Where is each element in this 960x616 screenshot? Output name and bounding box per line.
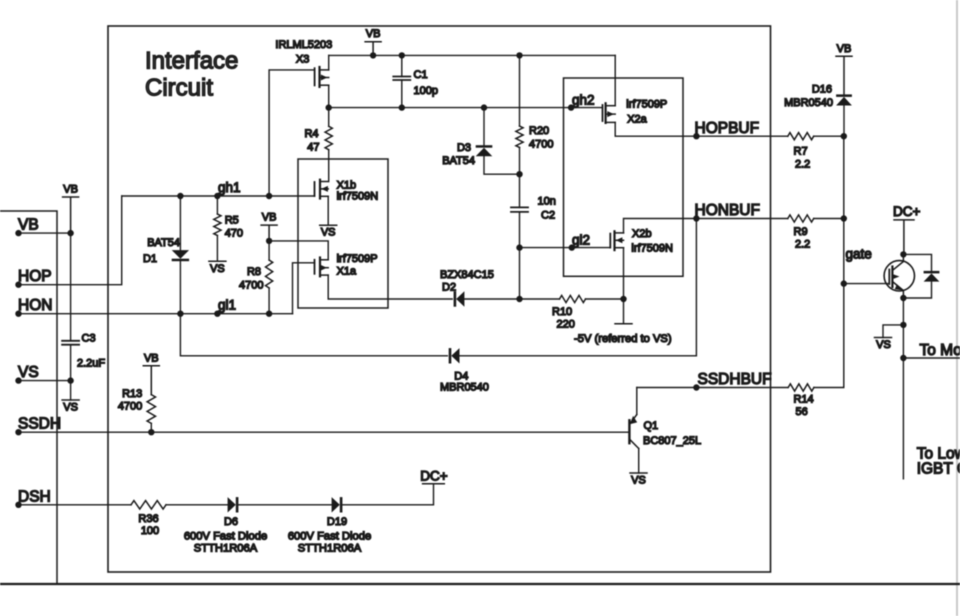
svg-text:600V Fast Diode: 600V Fast Diode — [184, 530, 267, 542]
svg-text:DC+: DC+ — [420, 468, 447, 483]
svg-text:DSH: DSH — [18, 488, 51, 505]
resistor R8 — [268, 241, 270, 260]
svg-text:irf7509N: irf7509N — [631, 243, 673, 255]
wire X2a source to VB rail — [614, 55, 616, 105]
resistor R20 — [516, 52, 522, 58]
svg-text:D1: D1 — [143, 253, 157, 265]
resistor R4 — [328, 108, 330, 127]
svg-text:Q1: Q1 — [644, 420, 659, 432]
svg-text:100p: 100p — [414, 85, 438, 97]
wire gl2 — [520, 247, 611, 249]
svg-text:X2b: X2b — [632, 228, 652, 240]
wire X3 drain up to VB rail — [328, 55, 330, 70]
transistor IGBT — [884, 261, 914, 291]
wire gl1 up to X1a gate — [293, 263, 315, 314]
wire X1a drain out — [328, 275, 452, 299]
svg-text:4700: 4700 — [239, 279, 263, 291]
freewheel diode — [903, 254, 931, 271]
svg-text:VB: VB — [18, 217, 39, 234]
svg-text:R13: R13 — [122, 388, 142, 400]
wire VB down to C3 — [70, 233, 72, 341]
wire HOP to gh1 — [19, 196, 122, 285]
resistor R7 — [788, 133, 814, 140]
wire X2b drain to HONBUF — [624, 219, 788, 233]
svg-text:R10: R10 — [552, 306, 572, 318]
svg-text:R36: R36 — [138, 513, 158, 525]
transistor X1b irf7509N — [314, 182, 316, 196]
power VB (left) — [63, 197, 79, 233]
svg-text:X2a: X2a — [627, 114, 647, 126]
svg-text:C2: C2 — [541, 210, 555, 222]
power VB (top rail) — [365, 42, 381, 56]
transistor Q1 BC807_25L — [636, 388, 638, 415]
ground VS (Q1) — [630, 472, 647, 474]
diode D6 STTH1R06A — [228, 497, 236, 512]
svg-text:Circuit: Circuit — [145, 75, 213, 102]
rail2 (gh2 net) — [329, 107, 603, 109]
wire HON / gl1 rail — [19, 313, 293, 315]
svg-text:D2: D2 — [442, 282, 456, 294]
wire C3 to VS wire — [70, 345, 72, 400]
power VB (R13) — [143, 366, 159, 395]
capacitor C2 — [519, 174, 521, 207]
svg-text:X1a: X1a — [337, 266, 357, 278]
svg-text:VS: VS — [876, 339, 891, 351]
resistor R5 — [216, 196, 218, 214]
svg-text:D3: D3 — [457, 142, 471, 154]
transistor X2b irf7509N — [609, 234, 611, 248]
svg-text:STTH1R06A: STTH1R06A — [298, 543, 362, 555]
svg-text:irf7509P: irf7509P — [626, 99, 667, 111]
capacitor C3 — [62, 341, 79, 345]
wire X1b source to VS — [327, 196, 329, 225]
diode D3 BAT54 — [481, 104, 487, 110]
diode D4 MBR0540 — [180, 314, 447, 356]
svg-text:VS: VS — [210, 263, 225, 275]
wire emitter down — [902, 298, 904, 479]
svg-text:VS: VS — [631, 475, 646, 487]
svg-text:VB: VB — [63, 184, 78, 196]
svg-text:MBR0540: MBR0540 — [784, 97, 833, 109]
svg-text:56: 56 — [796, 406, 808, 418]
svg-text:R4: R4 — [304, 128, 318, 140]
wire To Motor — [900, 355, 906, 361]
transistor X1a irf7509P — [314, 260, 316, 274]
svg-text:R7: R7 — [794, 146, 808, 158]
ground VS (under C3) — [62, 399, 79, 401]
wire X2a drain to HOPBUF — [615, 122, 788, 136]
svg-text:HOPBUF: HOPBUF — [695, 120, 760, 137]
bottom page border — [0, 583, 960, 585]
svg-text:D16: D16 — [812, 84, 832, 96]
svg-text:VB: VB — [366, 28, 381, 40]
wire gate rail — [843, 136, 845, 387]
svg-text:470: 470 — [225, 228, 243, 240]
svg-text:IGBT G: IGBT G — [917, 461, 960, 478]
wire X3 source down to rail2 — [328, 85, 330, 107]
svg-text:47: 47 — [307, 142, 319, 154]
wire SSDHBUF — [637, 387, 788, 389]
ground -5V — [623, 299, 625, 324]
svg-text:C1: C1 — [414, 69, 428, 81]
wire X3 gate from gh1 — [269, 70, 315, 196]
svg-text:R20: R20 — [529, 125, 549, 137]
svg-text:gl2: gl2 — [572, 232, 590, 247]
svg-text:220: 220 — [557, 319, 575, 331]
svg-text:VS: VS — [63, 402, 78, 414]
svg-text:D6: D6 — [224, 516, 238, 528]
svg-text:gate: gate — [846, 247, 872, 262]
power VB (D16) — [836, 56, 852, 94]
wire down to D2/R10 node — [519, 248, 521, 299]
svg-text:BC807_25L: BC807_25L — [643, 435, 701, 447]
svg-text:BZX84C15: BZX84C15 — [440, 269, 494, 281]
svg-text:gh2: gh2 — [572, 93, 595, 108]
svg-text:600V Fast Diode: 600V Fast Diode — [288, 530, 371, 542]
ground VS (emitter) — [883, 325, 903, 338]
transistor X3 IRLML5203 — [314, 68, 316, 85]
svg-text:10n: 10n — [538, 196, 556, 208]
svg-text:VB: VB — [837, 43, 852, 55]
svg-text:VB: VB — [144, 352, 159, 364]
svg-text:VS: VS — [321, 227, 336, 239]
svg-text:2.2: 2.2 — [795, 159, 810, 171]
svg-text:HONBUF: HONBUF — [695, 202, 760, 219]
transistor X2a irf7509P — [602, 105, 604, 121]
left outer block edge — [0, 211, 57, 584]
svg-text:R9: R9 — [794, 226, 808, 238]
svg-text:HOP: HOP — [18, 268, 52, 285]
svg-text:D19: D19 — [327, 516, 347, 528]
resistor R9 — [788, 215, 814, 222]
svg-text:SSDH: SSDH — [18, 416, 61, 433]
diode D19 STTH1R06A — [332, 497, 340, 512]
svg-text:BAT54: BAT54 — [442, 155, 475, 167]
svg-text:X3: X3 — [296, 54, 309, 66]
ground VS (under R5) — [209, 260, 226, 262]
svg-text:gh1: gh1 — [218, 180, 241, 195]
svg-text:-5V (referred to VS): -5V (referred to VS) — [574, 333, 672, 345]
wire gate to IGBT — [844, 283, 889, 285]
svg-text:STTH1R06A: STTH1R06A — [194, 543, 258, 555]
Interface Circuit box — [108, 26, 771, 572]
power VB (R8) — [261, 225, 277, 241]
svg-text:HON: HON — [18, 297, 52, 314]
svg-text:VB: VB — [262, 212, 277, 224]
svg-text:VS: VS — [18, 364, 39, 381]
svg-text:2.2: 2.2 — [795, 239, 810, 251]
ground VS (X1b) — [320, 224, 337, 226]
wire VB to X1a source — [269, 241, 328, 260]
svg-text:R8: R8 — [247, 266, 261, 278]
svg-text:4700: 4700 — [529, 138, 553, 150]
wire gh1 rail — [122, 195, 315, 197]
svg-text:BAT54: BAT54 — [147, 237, 180, 249]
resistor R13 — [147, 395, 155, 424]
svg-text:R5: R5 — [225, 215, 239, 227]
resistor R14 — [788, 384, 814, 391]
wire VB rail top — [329, 54, 616, 56]
svg-text:gl1: gl1 — [218, 298, 236, 313]
svg-text:SSDHBUF: SSDHBUF — [698, 371, 772, 388]
resistor R36 — [131, 501, 166, 509]
svg-text:To Mot: To Mot — [920, 342, 960, 359]
zener D2 BZX84C15 — [454, 291, 457, 306]
svg-text:4700: 4700 — [118, 401, 142, 413]
wire VS — [19, 380, 71, 382]
svg-text:100: 100 — [141, 525, 159, 537]
svg-text:irf7509N: irf7509N — [337, 191, 379, 203]
svg-text:C3: C3 — [82, 333, 96, 345]
wire X2b source down — [623, 248, 625, 299]
wire DSH — [19, 504, 132, 506]
op-amp box X1 — [298, 159, 388, 308]
svg-text:2.2uF: 2.2uF — [77, 358, 105, 370]
wire SSDH to Q1 base — [19, 431, 629, 433]
capacitor C1 — [399, 52, 405, 58]
svg-text:MBR0540: MBR0540 — [440, 382, 489, 394]
resistor R10 — [520, 298, 560, 300]
page edge line right — [956, 0, 958, 616]
svg-text:Interface: Interface — [145, 48, 238, 75]
svg-text:IRLML5203: IRLML5203 — [275, 39, 332, 51]
svg-text:DC+: DC+ — [893, 204, 920, 219]
diode D16 MBR0540 — [836, 94, 852, 97]
svg-text:irf7509P: irf7509P — [337, 253, 378, 265]
diode D1 BAT54 — [179, 196, 181, 250]
svg-text:R14: R14 — [794, 394, 814, 406]
op-amp box X2 — [564, 78, 684, 276]
